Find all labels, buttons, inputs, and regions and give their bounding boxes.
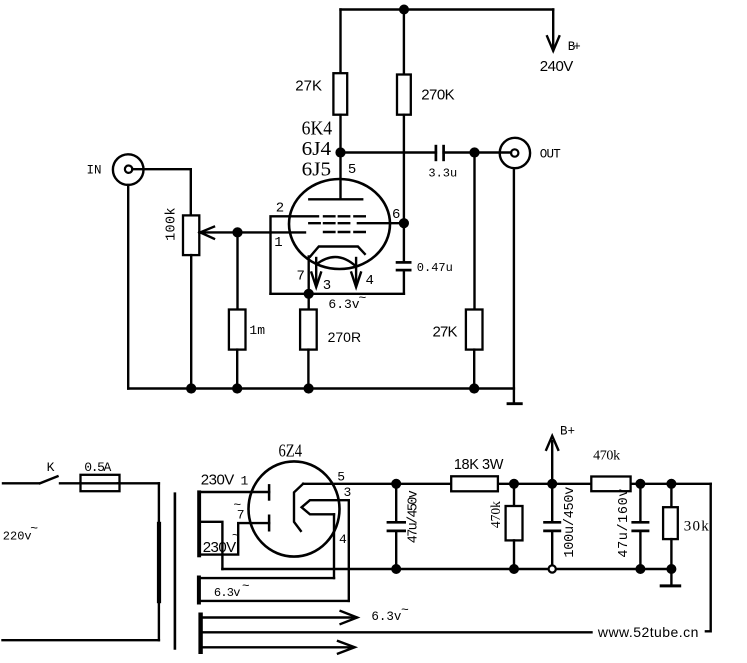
node: 47u/160v top xyxy=(635,479,645,489)
capacitor 47u/450v xyxy=(387,484,406,569)
node: 470k bottom xyxy=(509,564,519,574)
svg-text:27K: 27K xyxy=(433,324,458,341)
svg-text:IN: IN xyxy=(87,164,102,178)
node: 47u/450v top xyxy=(391,479,401,489)
wire IN to pot xyxy=(132,169,191,215)
svg-text:OUT: OUT xyxy=(540,148,561,162)
6Z4 plate pin 7 xyxy=(268,515,271,532)
transformer 6.3v winding (output heaters) xyxy=(198,613,202,655)
svg-text:6.3v: 6.3v xyxy=(328,297,359,312)
B+ feed arrow (down) xyxy=(547,10,559,51)
capacitor C 3.3u xyxy=(436,145,444,161)
svg-text:240V: 240V xyxy=(540,58,574,75)
wire screen grid pin 6 xyxy=(358,222,404,224)
svg-text:30k: 30k xyxy=(684,519,710,535)
tube V2 envelope 6Z4 xyxy=(249,461,340,556)
svg-text:~: ~ xyxy=(232,528,240,543)
heater lead arrow pin 4 xyxy=(351,258,361,287)
wire 6.3v heater feed B (arrow) xyxy=(203,641,355,654)
wire mains return xyxy=(3,639,159,641)
node: cathode junction xyxy=(304,289,314,299)
B+ output arrow (up) xyxy=(546,436,558,484)
node: pot bottom xyxy=(186,383,196,393)
capacitor 0.47u (screen bypass) xyxy=(396,223,412,294)
svg-text:6.3v: 6.3v xyxy=(214,586,241,600)
svg-text:~: ~ xyxy=(401,603,409,618)
node: screen junction xyxy=(399,218,409,228)
svg-text:4: 4 xyxy=(366,273,374,289)
svg-text:100u/450v: 100u/450v xyxy=(563,487,578,558)
wire plate to coupling cap xyxy=(341,151,436,153)
node: 47u/160v bottom xyxy=(635,564,645,574)
svg-text:1: 1 xyxy=(274,235,282,251)
svg-text:47u/450v: 47u/450v xyxy=(407,490,422,543)
svg-text:~: ~ xyxy=(30,521,38,536)
wire cap to out node xyxy=(444,151,511,153)
svg-text:0.47u: 0.47u xyxy=(417,261,453,275)
6Z4 heater xyxy=(302,500,349,514)
wire heater pin 4 xyxy=(333,514,335,578)
tube heater arc xyxy=(316,257,356,267)
resistor 270K (screen feed) xyxy=(397,10,411,224)
svg-text:6J4: 6J4 xyxy=(302,138,332,160)
grid row 1 (dashes) xyxy=(324,215,365,217)
svg-text:18K 3W: 18K 3W xyxy=(454,457,504,473)
resistor 270R (cathode bias) xyxy=(300,294,317,389)
svg-text:B+: B+ xyxy=(568,40,581,54)
label 6.3v~ (winding 2) xyxy=(371,603,409,624)
wire 6.3v to pin 4 xyxy=(200,577,334,579)
svg-text:3: 3 xyxy=(323,278,331,294)
svg-text:0.5A: 0.5A xyxy=(84,460,111,475)
wire cathode pin 7 xyxy=(308,257,310,294)
label 6.3v~ (heater) xyxy=(328,291,366,313)
svg-text:7: 7 xyxy=(237,508,245,523)
svg-text:6K4: 6K4 xyxy=(302,118,333,140)
ground rail (bottom circuit) xyxy=(222,568,671,570)
tube plate xyxy=(309,153,362,200)
svg-text:27K: 27K xyxy=(295,78,322,95)
fuse 0.5A xyxy=(60,475,159,491)
node: wiper junction xyxy=(232,227,242,237)
svg-text:100k: 100k xyxy=(165,207,180,241)
svg-text:6.3v: 6.3v xyxy=(371,610,402,624)
node: plate / coupling junction xyxy=(335,147,345,157)
svg-text:470k: 470k xyxy=(488,501,503,528)
node: B+ takeoff xyxy=(547,479,557,489)
wire pin 2 tie xyxy=(271,216,319,293)
svg-text:3.3u: 3.3u xyxy=(428,167,457,181)
svg-text:B+: B+ xyxy=(560,425,575,439)
svg-text:1: 1 xyxy=(241,474,249,489)
resistor 470k (bleeder 1) xyxy=(506,484,523,569)
capacitor 100u/450v xyxy=(543,484,561,565)
wire pot bottom to ground rail xyxy=(190,255,192,388)
resistor 470k (filter) xyxy=(591,477,630,492)
svg-text:7: 7 xyxy=(297,269,305,285)
resistor 30k xyxy=(663,484,678,569)
svg-text:230V: 230V xyxy=(201,472,235,489)
wire mains live xyxy=(3,482,39,484)
6Z4 cathode xyxy=(294,484,303,531)
grid row 3 (dashes) xyxy=(324,231,365,233)
node: output junction xyxy=(469,147,479,157)
transformer core xyxy=(174,492,177,649)
grid row 2 (dashes) xyxy=(309,222,349,224)
svg-text:6: 6 xyxy=(392,207,400,223)
svg-text:5: 5 xyxy=(348,162,356,178)
wire B+ return (right edge) xyxy=(706,484,711,632)
resistor 18K 3W xyxy=(451,476,498,491)
node: 30k bottom xyxy=(666,564,676,574)
wire secondary top to plate pin 1 xyxy=(201,491,270,493)
svg-text:6J5: 6J5 xyxy=(302,158,332,180)
svg-text:www.52tube.cn: www.52tube.cn xyxy=(597,624,699,640)
svg-text:3: 3 xyxy=(344,485,352,500)
resistor 27K (output load) xyxy=(466,153,483,389)
node: center tap terminal (open) xyxy=(549,565,556,572)
svg-text:1m: 1m xyxy=(249,323,265,338)
capacitor 47u/160v xyxy=(631,484,649,569)
svg-text:K: K xyxy=(47,460,55,475)
label 220v~ xyxy=(3,521,39,544)
6Z4 plate pin 1 xyxy=(268,484,271,501)
transformer 6.3v winding (rectifier heater) xyxy=(197,576,201,605)
wire wiper to grid (pin 1) xyxy=(199,231,305,233)
svg-text:220v: 220v xyxy=(3,530,32,544)
label 6.3v~ (winding 1) xyxy=(214,580,250,601)
ground rail (top circuit) xyxy=(128,387,514,389)
wire secondary center tap xyxy=(201,522,223,569)
B+ rail from cathode pin 5 xyxy=(303,483,711,485)
tube cathode cup xyxy=(310,247,365,257)
resistor 27K (plate load) xyxy=(333,10,347,153)
svg-text:270R: 270R xyxy=(328,329,361,345)
transformer secondary 230V winding xyxy=(197,490,201,557)
svg-text:2: 2 xyxy=(276,201,284,217)
connector IN jack xyxy=(113,154,144,185)
potentiometer 100k xyxy=(183,215,214,255)
svg-text:5: 5 xyxy=(337,470,345,485)
wire 6.3v center tap line xyxy=(203,631,592,633)
node: 470k top xyxy=(509,479,519,489)
node: 1m bottom xyxy=(232,383,242,393)
wire OUT sleeve down xyxy=(513,168,515,402)
node: 27K bottom xyxy=(469,383,479,393)
node: B+ rail / 270K junction xyxy=(399,5,409,15)
wire IN sleeve down xyxy=(127,185,129,389)
svg-text:47u/160v: 47u/160v xyxy=(617,489,632,558)
node: 270R bottom xyxy=(304,383,314,393)
svg-text:470k: 470k xyxy=(593,449,620,464)
svg-text:6Z4: 6Z4 xyxy=(279,441,303,461)
connector OUT jack xyxy=(500,138,530,168)
svg-text:270K: 270K xyxy=(421,86,455,103)
wire cathode return (box bottom) xyxy=(271,293,404,295)
wire heater pin 3 xyxy=(348,500,350,601)
wire 6.3v heater feed A (arrow) xyxy=(203,611,357,624)
ground bar under OUT xyxy=(507,402,523,405)
svg-text:4: 4 xyxy=(339,532,347,547)
switch K blade xyxy=(40,476,58,483)
ground symbol xyxy=(660,569,682,586)
wire secondary bottom to plate pin 7 xyxy=(201,523,270,555)
node: 47u/450v bottom xyxy=(391,564,401,574)
heater lead arrow pin 3 xyxy=(311,258,321,287)
wire 6.3v to pin 3 xyxy=(200,600,348,602)
svg-text:~: ~ xyxy=(242,580,250,594)
svg-text:~: ~ xyxy=(359,291,367,306)
B+ supply rail (top) xyxy=(341,8,554,10)
tube V1 envelope (6K4/6J4/6J5) xyxy=(289,179,390,269)
resistor 1m (grid leak) xyxy=(229,232,246,388)
transformer primary winding xyxy=(157,483,161,640)
node: 30k top xyxy=(666,479,676,489)
